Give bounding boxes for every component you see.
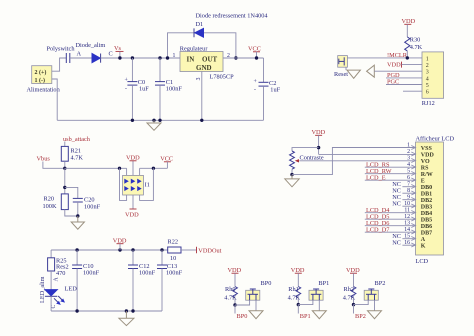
wire pot bottom	[291, 169, 293, 174]
svg-text:L7805CP: L7805CP	[210, 74, 235, 81]
wire pot top to VDD	[292, 148, 319, 151]
svg-text:-: -	[125, 86, 127, 92]
wire regulator OUT to VCC	[223, 57, 264, 59]
svg-text:-: -	[254, 87, 256, 93]
capacitor C20	[65, 187, 101, 216]
svg-text:DB5: DB5	[421, 217, 432, 223]
svg-text:VDD: VDD	[387, 62, 401, 69]
ground	[119, 311, 134, 326]
svg-text:100nF: 100nF	[166, 86, 183, 93]
svg-text:5: 5	[426, 83, 429, 89]
svg-text:Diode_alim: Diode_alim	[76, 42, 106, 49]
svg-text:LCD: LCD	[416, 258, 429, 265]
regulator U? L7805CP	[173, 45, 235, 80]
node C1 top	[158, 56, 161, 59]
svg-text:LED: LED	[65, 286, 78, 293]
svg-text:470: 470	[56, 270, 65, 277]
net label LCD_D4	[365, 207, 416, 214]
net label NC pin10	[392, 200, 415, 207]
svg-text:2: 2	[407, 149, 410, 155]
ground rail bottom-left	[51, 310, 162, 312]
wire pin2 of Alimentation	[52, 58, 67, 71]
connector LCD Afficheur	[416, 135, 455, 264]
svg-text:Rh2: Rh2	[344, 286, 355, 293]
LED LED_alim	[39, 276, 77, 311]
svg-text:BP0: BP0	[237, 313, 248, 320]
wire MCLR line	[347, 57, 422, 59]
connector RJ12	[422, 52, 444, 107]
svg-text:NC: NC	[392, 239, 401, 246]
net label PGC	[386, 79, 422, 86]
diode Diode_alim	[76, 42, 113, 63]
pushbutton unit BP0	[224, 267, 271, 320]
svg-text:RS: RS	[421, 165, 429, 171]
net label LCD_RS	[365, 161, 416, 168]
svg-text:R30: R30	[410, 36, 421, 43]
wire regulator GND pin	[201, 72, 203, 121]
svg-text:K: K	[421, 243, 426, 249]
ground rail	[57, 119, 263, 121]
power port VCC	[248, 45, 261, 59]
svg-text:BP1: BP1	[318, 280, 329, 287]
wire right wrap loop	[140, 168, 154, 200]
svg-text:C: C	[109, 51, 113, 58]
svg-text:100nF: 100nF	[139, 270, 156, 277]
svg-text:GND: GND	[196, 64, 212, 72]
svg-text:VSS: VSS	[421, 146, 433, 152]
node right of I1	[152, 167, 155, 170]
svg-text:3: 3	[196, 77, 202, 80]
wire D1 bypass loop	[168, 33, 236, 58]
svg-text:1: 1	[407, 142, 410, 148]
net label NC pin8	[392, 187, 415, 194]
svg-text:usb_attach: usb_attach	[63, 136, 91, 143]
capacitor C13	[157, 250, 183, 311]
net label NC pin15	[392, 233, 415, 240]
svg-text:Diode redressement 1N4004: Diode redressement 1N4004	[196, 13, 269, 20]
node left of IC I1	[118, 167, 121, 170]
svg-text:4.7K: 4.7K	[71, 155, 84, 162]
wire	[70, 57, 92, 59]
net label Vbus	[37, 156, 65, 169]
ground	[285, 175, 299, 187]
svg-text:DB1: DB1	[421, 191, 432, 197]
svg-text:100nF: 100nF	[166, 270, 183, 277]
svg-text:DB2: DB2	[421, 198, 432, 204]
svg-text:VDD: VDD	[402, 18, 416, 25]
svg-text:C: C	[51, 305, 57, 309]
svg-text:4: 4	[426, 76, 429, 82]
wire pin1 of Alimentation to ground rail	[52, 79, 57, 120]
svg-text:Afficheur LCD: Afficheur LCD	[416, 135, 455, 142]
resistor R22	[168, 239, 197, 262]
svg-text:R20: R20	[44, 196, 55, 203]
pushbutton unit BP1	[288, 267, 330, 320]
svg-text:VDD: VDD	[312, 129, 326, 136]
svg-text:BP2: BP2	[375, 280, 386, 287]
power port VDD	[113, 237, 127, 250]
svg-text:+: +	[125, 77, 128, 83]
svg-text:100K: 100K	[43, 203, 57, 210]
wire VSS net pot bottom to LCD pin1	[292, 148, 416, 175]
svg-text:E: E	[421, 178, 425, 184]
svg-text:Rh0: Rh0	[225, 286, 236, 293]
svg-text:+: +	[254, 79, 257, 85]
svg-text:DB3: DB3	[421, 204, 432, 210]
svg-text:4.7K: 4.7K	[410, 44, 423, 51]
ground under Reset	[347, 70, 360, 78]
svg-text:Alimentation: Alimentation	[27, 87, 61, 94]
svg-text:2 (+): 2 (+)	[35, 69, 47, 76]
resistor R20	[43, 194, 78, 216]
power port VCC mid	[160, 155, 173, 168]
net label usb_attach	[63, 136, 91, 147]
svg-text:3: 3	[407, 155, 410, 161]
svg-text:Polyswitch: Polyswitch	[47, 46, 76, 53]
svg-text:Vs: Vs	[114, 45, 122, 52]
svg-text:1uF: 1uF	[270, 87, 280, 94]
node C20 top branch	[63, 186, 66, 189]
wire to protection IC	[65, 167, 127, 169]
svg-text:1 (-): 1 (-)	[35, 77, 46, 84]
svg-text:DB7: DB7	[421, 230, 432, 236]
wire down to R20	[64, 168, 66, 194]
power port VDD contrast	[312, 129, 326, 155]
svg-text:100nF: 100nF	[84, 203, 101, 210]
protection IC I1	[123, 175, 150, 195]
svg-text:VO: VO	[421, 159, 430, 165]
svg-text:I1: I1	[145, 182, 150, 189]
net label LCD_E	[365, 174, 416, 181]
ground arrow port pin3 RJ12	[367, 65, 422, 77]
capacitor C10	[72, 250, 99, 311]
net label LCD_D7	[365, 226, 416, 233]
svg-text:R22: R22	[168, 239, 179, 246]
svg-text:1: 1	[426, 56, 429, 62]
svg-text:6: 6	[426, 90, 429, 96]
svg-text:VDD: VDD	[126, 154, 140, 161]
svg-text:BP2: BP2	[355, 313, 366, 320]
node C20 bottom	[76, 214, 79, 217]
svg-text:VCC: VCC	[160, 155, 173, 162]
svg-text:1: 1	[173, 53, 176, 59]
LCD pin names	[421, 146, 435, 250]
svg-text:A: A	[421, 237, 426, 243]
svg-text:R21: R21	[71, 148, 82, 155]
svg-text:IN: IN	[187, 56, 195, 64]
capacitor C1	[155, 58, 182, 120]
capacitor C0	[125, 58, 150, 120]
wire top rail to regulator	[101, 57, 180, 59]
net label PGD	[386, 72, 422, 79]
svg-text:BP1: BP1	[300, 313, 311, 320]
power port VDD above I1	[126, 154, 140, 161]
net label LCD_D6	[365, 220, 416, 227]
svg-text:RJ12: RJ12	[422, 100, 435, 107]
svg-text:Rh1: Rh1	[288, 286, 299, 293]
svg-text:NC: NC	[392, 200, 401, 207]
capacitor C12	[128, 250, 156, 311]
power port VDD top right	[402, 18, 416, 37]
svg-text:A: A	[77, 51, 82, 58]
svg-text:VCC: VCC	[248, 45, 261, 52]
resistor R30	[405, 36, 423, 58]
resistor R21	[61, 146, 83, 168]
svg-text:3: 3	[426, 70, 429, 76]
net label NC pin16	[392, 239, 415, 246]
power port VDD below I1	[125, 195, 139, 218]
resistor R25	[48, 250, 69, 290]
svg-text:Reset: Reset	[334, 71, 348, 78]
wire left wrap loop	[120, 168, 127, 200]
net label LCD_D5	[365, 213, 416, 220]
power port Vs	[114, 45, 124, 60]
svg-text:LCD_E: LCD_E	[366, 174, 386, 181]
svg-text:Vbus: Vbus	[37, 156, 51, 163]
connector Alimentation	[27, 66, 61, 94]
net label VDDOut	[197, 247, 222, 255]
net label LCD_RW	[365, 168, 416, 175]
svg-text:VDD: VDD	[421, 152, 435, 158]
ground	[147, 120, 161, 130]
wire pin6 RJ12	[403, 90, 422, 92]
LCD pin numbers	[404, 142, 410, 246]
potentiometer Contraste	[290, 151, 324, 169]
net label NC pin7	[392, 181, 415, 188]
wire pot wiper to LCD pin3	[299, 160, 415, 162]
svg-text:100nF: 100nF	[83, 270, 100, 277]
svg-text:DB0: DB0	[421, 185, 432, 191]
polyswitch F1	[47, 46, 76, 64]
node R21 bottom	[63, 167, 66, 170]
svg-text:DB6: DB6	[421, 224, 432, 230]
svg-text:DB4: DB4	[421, 211, 432, 217]
wire VDD top rail bottom-left	[51, 249, 168, 251]
capacitor C2	[254, 58, 281, 120]
svg-text:1uF: 1uF	[139, 86, 149, 93]
pin stubs of I1	[126, 168, 128, 175]
svg-text:R/W: R/W	[421, 172, 433, 178]
svg-text:VDDOut: VDDOut	[198, 248, 221, 255]
svg-text:LCD_D7: LCD_D7	[366, 226, 389, 233]
wire right of I1	[140, 167, 168, 169]
net label VDD pin2 RJ12	[387, 62, 422, 69]
svg-text:OUT: OUT	[202, 56, 218, 64]
svg-text:Contraste: Contraste	[300, 154, 324, 161]
svg-text:BP0: BP0	[261, 280, 272, 287]
svg-text:D1: D1	[196, 21, 204, 28]
svg-text:2: 2	[426, 63, 429, 69]
net label NC pin9	[392, 194, 415, 201]
LCD pin input arrows	[411, 146, 415, 248]
wire VDD to LCD pin2	[319, 153, 416, 155]
pushbutton unit BP2	[343, 267, 386, 320]
node C0 top	[131, 56, 134, 59]
diode D1 1N4004	[194, 13, 268, 38]
switch Reset	[334, 56, 348, 78]
svg-text:10: 10	[170, 255, 176, 262]
ground	[71, 216, 84, 229]
svg-text:VDD: VDD	[125, 211, 139, 218]
